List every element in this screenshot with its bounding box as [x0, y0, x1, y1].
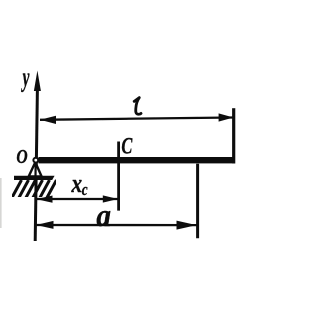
svg-text:O: O: [16, 145, 27, 167]
svg-text:c: c: [82, 180, 88, 199]
svg-text:x: x: [71, 170, 83, 198]
svg-text:a: a: [96, 198, 111, 233]
svg-text:C: C: [121, 134, 132, 159]
